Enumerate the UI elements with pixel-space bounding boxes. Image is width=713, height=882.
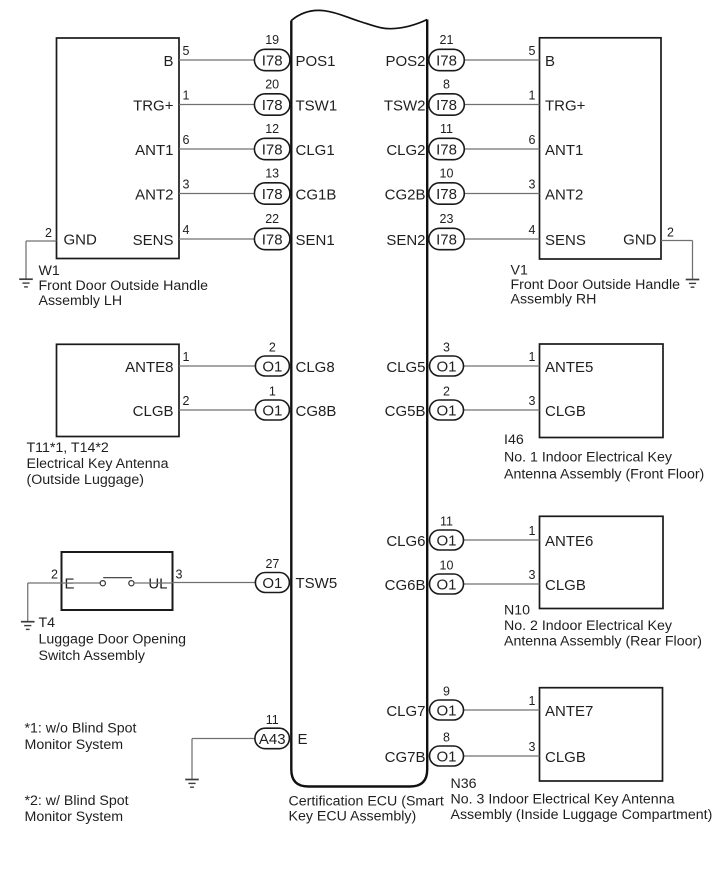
svg-text:11: 11 <box>440 122 453 136</box>
connector oval O1 (left, pin 27) <box>255 573 289 593</box>
svg-text:3: 3 <box>176 568 183 582</box>
svg-text:E: E <box>298 731 308 748</box>
svg-text:CLG1: CLG1 <box>296 142 335 159</box>
ground A43 <box>185 780 199 788</box>
svg-text:I78: I78 <box>436 186 457 203</box>
designator N10 + description <box>504 603 702 650</box>
svg-text:GND: GND <box>64 232 98 249</box>
svg-text:4: 4 <box>529 223 536 237</box>
svg-text:2: 2 <box>183 394 190 408</box>
svg-text:SENS: SENS <box>133 232 174 249</box>
wire O1 pin 2 to I46 CLGB (pin 3) <box>464 409 540 411</box>
ECU caption: Certification ECU (Smart Key ECU Assembly) <box>289 794 444 825</box>
connector oval I78 (right, pin 23) <box>429 228 465 249</box>
svg-text:20: 20 <box>265 78 279 92</box>
designator I46 + description <box>504 432 704 483</box>
svg-text:CLGB: CLGB <box>545 403 586 420</box>
box W1 Front Door Outside Handle Assembly LH <box>57 38 180 259</box>
svg-text:I78: I78 <box>262 186 283 203</box>
svg-text:CG8B: CG8B <box>296 403 337 420</box>
svg-text:Monitor System: Monitor System <box>25 737 124 753</box>
svg-text:CLG7: CLG7 <box>386 703 425 720</box>
svg-text:No. 3 Indoor Electrical Key An: No. 3 Indoor Electrical Key Antenna <box>451 792 675 808</box>
svg-text:1: 1 <box>529 89 536 103</box>
svg-text:Assembly RH: Assembly RH <box>511 292 597 308</box>
connector oval O1 (left, pin 2) <box>255 356 289 376</box>
svg-text:27: 27 <box>265 557 279 571</box>
wire V1 GND pin 2 to ground <box>661 241 693 280</box>
connector oval O1 (right, pin 3) <box>430 356 464 376</box>
svg-text:SEN2: SEN2 <box>386 232 425 249</box>
svg-text:ANTE6: ANTE6 <box>545 533 593 550</box>
svg-text:TRG+: TRG+ <box>133 98 174 115</box>
svg-text:13: 13 <box>265 167 279 181</box>
box T11/T14 Electrical Key Antenna (Outside Luggage) <box>57 344 180 436</box>
connector oval O1 (right, pin 11) <box>430 530 464 550</box>
svg-text:O1: O1 <box>436 402 456 419</box>
svg-text:T4: T4 <box>39 615 56 631</box>
switch SW1 contact circles and blade (open) <box>100 578 134 586</box>
svg-text:21: 21 <box>440 33 454 47</box>
svg-text:No. 1 Indoor Electrical Key: No. 1 Indoor Electrical Key <box>504 450 673 466</box>
svg-text:3: 3 <box>529 740 536 754</box>
svg-text:2: 2 <box>45 226 52 240</box>
box N36 No.3 Indoor Electrical Key Antenna Assembly (Inside Luggage Compartment) <box>540 688 663 781</box>
svg-text:1: 1 <box>529 350 536 364</box>
connector oval O1 (right, pin 2) <box>430 400 464 420</box>
wire O1 pin 8 to N36 CLGB (pin 3) <box>464 755 540 757</box>
designator N36 + description <box>451 776 713 823</box>
svg-text:2: 2 <box>667 226 674 240</box>
svg-text:I46: I46 <box>504 432 524 448</box>
svg-text:I78: I78 <box>436 231 457 248</box>
svg-text:Key ECU Assembly): Key ECU Assembly) <box>289 809 417 825</box>
connector oval O1 (right, pin 8) <box>430 746 464 766</box>
svg-text:ANT1: ANT1 <box>135 142 173 159</box>
svg-text:11: 11 <box>440 515 453 529</box>
svg-text:8: 8 <box>443 78 450 92</box>
svg-text:*2: w/ Blind Spot: *2: w/ Blind Spot <box>25 793 129 809</box>
svg-text:N36: N36 <box>451 776 477 792</box>
connector oval O1 (right, pin 9) <box>430 700 464 720</box>
svg-text:O1: O1 <box>262 402 282 419</box>
svg-text:4: 4 <box>183 223 190 237</box>
designator V1 + description <box>511 263 681 308</box>
svg-text:ANT1: ANT1 <box>545 142 583 159</box>
svg-text:CLGB: CLGB <box>545 577 586 594</box>
connector oval I78 (right, pin 21) <box>429 49 465 70</box>
wire O1 pin 3 to I46 ANTE5 (pin 1) <box>464 365 540 367</box>
svg-text:N10: N10 <box>504 603 530 619</box>
svg-text:ANTE7: ANTE7 <box>545 703 593 720</box>
wire switch contact to T4 UL <box>134 582 173 584</box>
box I46 No.1 Indoor Electrical Key Antenna Assembly (Front Floor) <box>540 344 664 438</box>
wire I78 pin 21 to V1 B (pin 5) <box>464 59 540 61</box>
svg-text:O1: O1 <box>262 358 282 375</box>
connector oval I78 (left, pin 22) <box>254 228 290 249</box>
svg-text:O1: O1 <box>436 576 456 593</box>
ground T4 <box>21 622 35 630</box>
connector oval I78 (right, pin 8) <box>429 94 465 115</box>
svg-text:TSW5: TSW5 <box>296 575 338 592</box>
svg-text:CG1B: CG1B <box>296 187 337 204</box>
svg-text:3: 3 <box>529 178 536 192</box>
svg-text:1: 1 <box>183 350 190 364</box>
wire W1 SENS (pin 4) to I78 pin 22 <box>179 238 255 240</box>
ground V1 <box>686 280 700 288</box>
svg-text:B: B <box>545 53 555 70</box>
svg-text:19: 19 <box>265 33 279 47</box>
svg-text:Antenna Assembly (Rear Floor): Antenna Assembly (Rear Floor) <box>504 634 702 650</box>
svg-text:12: 12 <box>265 122 279 136</box>
connector oval O1 (left, pin 1) <box>255 400 289 420</box>
wire W1 B (pin 5) to I78 pin 19 <box>179 59 255 61</box>
connector oval O1 (right, pin 10) <box>430 574 464 594</box>
svg-text:SENS: SENS <box>545 232 586 249</box>
connector oval I78 (left, pin 12) <box>254 138 290 159</box>
svg-text:9: 9 <box>443 685 450 699</box>
svg-text:T11*1, T14*2: T11*1, T14*2 <box>27 440 109 456</box>
ECU U1 Certification ECU body outline <box>291 20 427 787</box>
wire ground to A43 pin 11 (E) <box>192 739 255 780</box>
wire I78 pin 11 to V1 ANT1 (pin 6) <box>464 148 540 150</box>
wire W1 GND pin 2 to ground <box>26 241 57 279</box>
svg-text:GND: GND <box>623 232 657 249</box>
wire I78 pin 8 to V1 TRG+ (pin 1) <box>464 104 540 106</box>
svg-text:B: B <box>163 53 173 70</box>
designator T11*1,T14*2 + description <box>27 440 169 488</box>
svg-text:(Outside Luggage): (Outside Luggage) <box>27 472 145 488</box>
wire T11 CLGB (pin 2) to O1 pin 1 <box>179 409 256 411</box>
svg-text:TSW1: TSW1 <box>296 98 338 115</box>
wire O1 pin 10 to N10 CLGB (pin 3) <box>464 583 540 585</box>
svg-text:O1: O1 <box>436 748 456 765</box>
svg-text:CLG6: CLG6 <box>386 533 425 550</box>
svg-text:I78: I78 <box>262 52 283 69</box>
svg-text:22: 22 <box>265 212 279 226</box>
connector oval I78 (left, pin 19) <box>254 49 290 70</box>
svg-text:TRG+: TRG+ <box>545 98 586 115</box>
wire T4 pin 3 to O1 pin 27 <box>173 582 256 584</box>
svg-text:W1: W1 <box>39 263 60 279</box>
wire I78 pin 10 to V1 ANT2 (pin 3) <box>464 193 540 195</box>
svg-text:3: 3 <box>443 341 450 355</box>
svg-text:6: 6 <box>529 133 536 147</box>
svg-text:2: 2 <box>269 341 276 355</box>
svg-text:No. 2 Indoor Electrical Key: No. 2 Indoor Electrical Key <box>504 618 673 634</box>
ECU torn-edge wavy top <box>291 10 427 28</box>
wire ground to T4 pin 2 (E) <box>28 583 62 621</box>
svg-text:SEN1: SEN1 <box>296 232 335 249</box>
svg-text:A43: A43 <box>259 731 286 748</box>
svg-text:CLGB: CLGB <box>133 403 174 420</box>
svg-text:POS1: POS1 <box>296 53 336 70</box>
box N10 No.2 Indoor Electrical Key Antenna Assembly (Rear Floor) <box>540 516 664 608</box>
svg-text:I78: I78 <box>262 141 283 158</box>
svg-text:1: 1 <box>269 385 276 399</box>
svg-text:Assembly LH: Assembly LH <box>39 293 123 309</box>
svg-text:O1: O1 <box>262 575 282 592</box>
svg-text:10: 10 <box>440 167 454 181</box>
svg-text:2: 2 <box>51 568 58 582</box>
wire T11 ANTE8 (pin 1) to O1 pin 2 <box>179 365 256 367</box>
box T4 Luggage Door Opening Switch Assembly <box>62 552 173 610</box>
svg-text:3: 3 <box>183 178 190 192</box>
svg-text:UL: UL <box>148 576 167 593</box>
footnote *2: w/ Blind Spot Monitor System <box>25 793 129 825</box>
wire O1 pin 9 to N36 ANTE7 (pin 1) <box>464 709 540 711</box>
svg-text:I78: I78 <box>262 97 283 114</box>
svg-text:6: 6 <box>183 133 190 147</box>
svg-text:CLG2: CLG2 <box>386 142 425 159</box>
svg-text:I78: I78 <box>436 97 457 114</box>
svg-text:E: E <box>65 576 75 593</box>
ground W1 <box>19 279 33 287</box>
svg-text:Switch Assembly: Switch Assembly <box>39 648 146 664</box>
svg-text:POS2: POS2 <box>385 53 425 70</box>
svg-text:Monitor System: Monitor System <box>25 809 124 825</box>
connector oval I78 (left, pin 13) <box>254 183 290 204</box>
svg-text:I78: I78 <box>262 231 283 248</box>
svg-text:2: 2 <box>443 385 450 399</box>
svg-text:CG5B: CG5B <box>385 403 426 420</box>
svg-text:O1: O1 <box>436 532 456 549</box>
svg-text:I78: I78 <box>436 141 457 158</box>
svg-text:Antenna Assembly (Front Floor): Antenna Assembly (Front Floor) <box>504 467 704 483</box>
connector oval I78 (left, pin 20) <box>254 94 290 115</box>
svg-text:3: 3 <box>529 394 536 408</box>
svg-text:CLGB: CLGB <box>545 749 586 766</box>
svg-text:Luggage Door Opening: Luggage Door Opening <box>39 632 187 648</box>
svg-text:O1: O1 <box>436 702 456 719</box>
svg-text:23: 23 <box>440 212 454 226</box>
wire I78 pin 23 to V1 SENS (pin 4) <box>464 238 540 240</box>
svg-text:Front Door Outside Handle: Front Door Outside Handle <box>39 278 209 294</box>
svg-text:11: 11 <box>266 713 279 727</box>
svg-text:Assembly (Inside Luggage Compa: Assembly (Inside Luggage Compartment) <box>451 807 713 823</box>
svg-text:O1: O1 <box>436 358 456 375</box>
svg-text:3: 3 <box>529 568 536 582</box>
svg-text:1: 1 <box>183 89 190 103</box>
wire O1 pin 11 to N10 ANTE6 (pin 1) <box>464 539 540 541</box>
svg-text:CG2B: CG2B <box>385 187 426 204</box>
svg-text:ANTE8: ANTE8 <box>125 359 173 376</box>
svg-text:1: 1 <box>529 694 536 708</box>
svg-text:TSW2: TSW2 <box>384 98 426 115</box>
svg-text:5: 5 <box>529 44 536 58</box>
wire T4 E to switch contact <box>62 582 101 584</box>
svg-text:CLG5: CLG5 <box>386 359 425 376</box>
svg-text:1: 1 <box>529 524 536 538</box>
svg-text:Certification ECU (Smart: Certification ECU (Smart <box>289 794 444 810</box>
wire W1 ANT1 (pin 6) to I78 pin 12 <box>179 148 255 150</box>
connector oval I78 (right, pin 10) <box>429 183 465 204</box>
designator T4 + description <box>39 615 187 664</box>
svg-text:CG6B: CG6B <box>385 577 426 594</box>
connector oval A43 (pin 11) <box>255 728 290 749</box>
svg-text:ANT2: ANT2 <box>135 187 173 204</box>
svg-text:ANTE5: ANTE5 <box>545 359 593 376</box>
footnote *1: w/o Blind Spot Monitor System <box>25 721 137 754</box>
designator W1 + description <box>39 263 209 309</box>
svg-text:CG7B: CG7B <box>385 749 426 766</box>
svg-text:5: 5 <box>183 44 190 58</box>
svg-text:CLG8: CLG8 <box>296 359 335 376</box>
svg-text:8: 8 <box>443 731 450 745</box>
box V1 Front Door Outside Handle Assembly RH <box>540 38 662 259</box>
svg-text:ANT2: ANT2 <box>545 187 583 204</box>
svg-text:Electrical Key Antenna: Electrical Key Antenna <box>27 456 169 472</box>
wire W1 ANT2 (pin 3) to I78 pin 13 <box>179 193 255 195</box>
svg-text:10: 10 <box>440 559 454 573</box>
svg-text:*1: w/o Blind Spot: *1: w/o Blind Spot <box>25 721 137 737</box>
connector oval I78 (right, pin 11) <box>429 138 465 159</box>
wire W1 TRG+ (pin 1) to I78 pin 20 <box>179 104 255 106</box>
svg-text:I78: I78 <box>436 52 457 69</box>
